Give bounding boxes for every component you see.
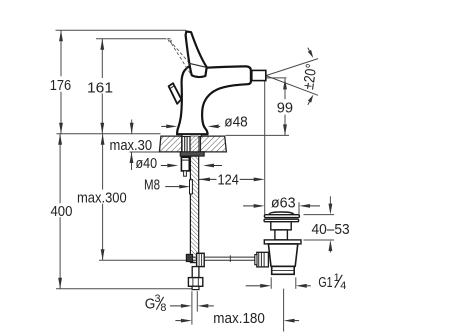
svg-text:99: 99 (277, 100, 293, 117)
svg-text:M8: M8 (144, 176, 160, 193)
wire: pop-up rod level extension (max.300 ref) (99, 259, 193, 261)
supply tube lower (192, 267, 199, 278)
svg-text:161: 161 (87, 79, 113, 96)
dimension 124 (199, 178, 210, 182)
rod adjusting nut (197, 253, 205, 266)
dimension 176 (60, 30, 62, 76)
label G3/8 (145, 293, 167, 314)
countertop deck right (hatched) (200, 136, 226, 152)
dimension G1¼ (270, 277, 272, 288)
dimension 40-53 (304, 214, 335, 216)
label M8 with leader (179, 185, 190, 189)
drain neck (271, 222, 291, 230)
label G1¼ (318, 272, 346, 292)
handle crease line (189, 63, 206, 67)
G3/8 thread stub (192, 286, 199, 289)
svg-text:124: 124 (218, 171, 239, 188)
angle fan line upper (+20°) (266, 59, 318, 76)
svg-text:400: 400 (51, 203, 73, 220)
aerator (252, 70, 266, 80)
angle fan line lower (-20°) (266, 76, 318, 96)
wire: deck bottom extension left (130, 151, 161, 153)
dimension G3/8 (191, 291, 193, 324)
wire: aerator vertical extension line (264, 81, 266, 214)
svg-text:4: 4 (340, 280, 346, 292)
svg-text:8: 8 (160, 302, 166, 314)
drain stem (275, 230, 288, 240)
dimension max.180 (181, 319, 192, 323)
rod sleeve section (190, 180, 193, 194)
wire: extension line phantom handle top (161 ref) (96, 38, 167, 40)
faucet base plinth (182, 134, 201, 136)
dimension ø48 (166, 125, 177, 129)
svg-text:176: 176 (50, 77, 71, 94)
drain top plate (264, 240, 301, 244)
wire: drain axis extension line (283, 289, 285, 332)
faucet handle lever (186, 31, 207, 77)
dimension 99 (284, 78, 286, 99)
mounting nut below deck (180, 152, 204, 156)
pop-up rod (horizontal) (193, 256, 257, 258)
rod end cap at drain (255, 255, 257, 265)
drain cap dome (269, 212, 294, 215)
rod clevis (186, 254, 192, 261)
M8 stud block (181, 157, 189, 171)
dimension 161 (101, 39, 103, 78)
threaded section in deck (cross-hatched) (191, 136, 199, 152)
svg-text:max.180: max.180 (213, 310, 265, 327)
wire: spout outlet level extension (266, 77, 287, 79)
dimension ø40 (167, 164, 178, 168)
wire: deck top reference line right (99 ref) (226, 134, 289, 136)
supply tube walls in deck hole (181, 136, 183, 152)
countertop deck left (hatched) (159, 136, 181, 152)
wire: hose end reference line (400 ref) (56, 288, 192, 290)
svg-text:ø40: ø40 (136, 155, 158, 172)
svg-text:±20°: ±20° (300, 63, 320, 91)
angle arc arrow lower (308, 95, 313, 103)
svg-text:40–53: 40–53 (312, 221, 350, 238)
drain cap disc (264, 215, 299, 218)
faucet body outline (177, 65, 251, 134)
dimension ø63 (298, 202, 300, 214)
dimension max.30 (131, 120, 133, 134)
threaded rod (hatched) (190, 156, 198, 263)
drain bottom ring (272, 266, 295, 274)
phantom handle position (dashed) (168, 39, 172, 44)
drain flange disc (264, 219, 299, 222)
drain cup body (268, 244, 297, 267)
rod joint tick (229, 255, 231, 262)
svg-text:max.300: max.300 (77, 189, 127, 206)
wire: deck top reference line left (57, 133, 161, 135)
svg-text:ø63: ø63 (271, 195, 296, 212)
angle arc arrow upper (308, 50, 313, 58)
drain lever stub (257, 252, 269, 267)
dimension 400 (59, 134, 61, 204)
pop-up knob lever (169, 83, 182, 104)
svg-text:G1: G1 (318, 274, 332, 291)
hose connector nut (188, 278, 202, 287)
svg-text:ø48: ø48 (224, 113, 248, 130)
svg-text:max.30: max.30 (110, 137, 153, 154)
wire: extension line handle top (176 ref) (56, 29, 187, 31)
dimension max.300 (102, 134, 104, 190)
